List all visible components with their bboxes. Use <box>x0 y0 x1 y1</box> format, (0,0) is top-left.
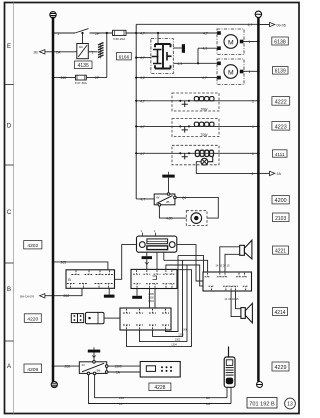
svg-text:4220: 4220 <box>27 317 38 323</box>
svg-text:5M: 5M <box>97 369 102 373</box>
svg-text:M: M <box>228 39 234 46</box>
wire plug to lower connector <box>104 317 120 319</box>
right label box 4223 <box>272 122 290 131</box>
blower motor M2 <box>224 65 238 79</box>
blower motor M1 dash box <box>217 29 244 55</box>
ballast resistor hatched <box>98 43 104 58</box>
wire row2 bus to fuse F47 <box>53 77 76 79</box>
harness bundle wire 2 <box>140 265 188 341</box>
svg-text:150: 150 <box>119 396 124 400</box>
svg-text:1306: 1306 <box>182 329 188 332</box>
connector B pins bottom <box>67 284 75 288</box>
phone wires <box>227 387 231 403</box>
svg-text:2P: 2P <box>95 32 100 36</box>
flap unit top pin wire <box>157 33 159 44</box>
svg-text:14 31 34 15: 14 31 34 15 <box>224 297 239 301</box>
wire bus to arrow 2A <box>258 172 269 174</box>
svg-text:4202: 4202 <box>27 243 38 249</box>
right label box 6138 <box>272 37 289 45</box>
svg-text:1304: 1304 <box>148 300 154 303</box>
svg-text:F30 20A: F30 20A <box>113 37 126 41</box>
component label box 4202 <box>24 241 42 250</box>
svg-text:14 33 34 15: 14 33 34 15 <box>215 263 230 267</box>
right supply bus <box>257 18 260 382</box>
svg-text:4,7: 4,7 <box>203 32 208 36</box>
harness connector lower <box>120 308 171 330</box>
wire relay to display 1A <box>108 371 140 373</box>
svg-text:4,2: 4,2 <box>140 76 145 80</box>
junction dots main rows <box>135 23 260 175</box>
svg-text:M5: M5 <box>206 402 210 406</box>
svg-text:6138: 6138 <box>274 39 286 45</box>
resistor coil R2 <box>194 122 214 126</box>
svg-text:2103: 2103 <box>275 216 286 222</box>
svg-text:2V: 2V <box>82 363 86 367</box>
wire thermal fuse to bus <box>196 162 258 174</box>
vertical link motor1 feed <box>197 48 199 63</box>
switch S1 blade <box>75 29 89 33</box>
flap control contact plate <box>155 44 171 69</box>
svg-text:2A: 2A <box>56 50 61 54</box>
display dots <box>161 366 172 372</box>
wire flap unit to motor row <box>173 62 219 64</box>
svg-text:4223: 4223 <box>275 124 287 130</box>
battery terminal bottom left <box>51 381 57 387</box>
wire switch to fuse F30 <box>90 32 113 34</box>
zone tick E/D <box>5 84 14 86</box>
speaker feed wire A <box>178 256 204 272</box>
wire 265 to connector B <box>53 262 108 270</box>
svg-text:265: 265 <box>61 260 67 264</box>
ground G5 above relay <box>88 347 100 362</box>
svg-text:D: D <box>7 124 12 130</box>
link coil to thermal fuse <box>208 157 213 162</box>
heater unit boundary top edge <box>136 23 258 25</box>
svg-text:265: 265 <box>65 365 71 369</box>
svg-text:09-05: 09-05 <box>277 23 286 27</box>
pump relay circuit wires <box>159 197 218 218</box>
upper connector inner links <box>153 276 157 280</box>
right label box 2193 <box>273 213 290 222</box>
right label box 4200 <box>272 196 289 205</box>
harness bundle wire 1 <box>127 270 192 347</box>
M1 pins <box>217 31 243 50</box>
fuse F47 30A <box>76 75 87 80</box>
heater unit boundary left edge <box>135 24 137 199</box>
svg-text:1: 1 <box>249 70 251 74</box>
wire M1 to bus <box>243 41 258 43</box>
speaker connector pins <box>205 273 249 290</box>
svg-text:2B: 2B <box>166 200 170 204</box>
radio aerial link <box>163 252 165 260</box>
svg-text:4111: 4111 <box>275 152 285 158</box>
svg-text:4229: 4229 <box>275 365 287 371</box>
svg-text:Q4: Q4 <box>182 196 186 200</box>
wire unit edge to pump relay <box>136 198 154 200</box>
svg-text:1: 1 <box>249 40 251 44</box>
capacitor stub wire <box>173 47 182 49</box>
svg-text:4200: 4200 <box>275 198 287 204</box>
wire fuse to unit edge <box>126 32 219 34</box>
phone keypad stripes <box>226 368 234 376</box>
junction dots top <box>52 32 159 79</box>
svg-text:2B: 2B <box>34 51 39 55</box>
left supply bus <box>52 18 55 382</box>
svg-text:202: 202 <box>64 294 70 298</box>
wire fuse F47 to node2P <box>86 77 107 79</box>
svg-text:4,3: 4,3 <box>178 62 183 66</box>
svg-text:A: A <box>7 364 11 370</box>
svg-text:2A: 2A <box>277 172 282 176</box>
relay 4135 coil feed <box>82 33 84 44</box>
left margin divider <box>13 3 15 414</box>
svg-text:4221: 4221 <box>275 249 286 255</box>
svg-text:4214: 4214 <box>274 310 285 316</box>
wire 202 to connector B <box>53 288 82 295</box>
thermal fuse symbol <box>201 158 208 165</box>
battery terminal top right <box>255 11 261 17</box>
arrow out left E <box>39 50 45 54</box>
wire link to motor1 pin2 <box>198 47 219 49</box>
svg-text:70W: 70W <box>201 108 209 112</box>
radio pin link to harness <box>156 252 158 269</box>
heater resistor row R2 <box>136 119 258 137</box>
right label box 4229 <box>272 362 289 371</box>
wire bus to relay 4135 <box>45 51 77 53</box>
speaker SP2 wires <box>231 291 241 317</box>
right label box 4222 <box>272 97 290 106</box>
zone tick B/A <box>5 340 14 342</box>
svg-text:13: 13 <box>287 402 293 408</box>
ground G1 above pump relay <box>162 172 174 194</box>
svg-text:4,7: 4,7 <box>248 23 253 27</box>
component label box 4209 <box>24 364 42 373</box>
ground G3 connector B <box>104 288 115 297</box>
car radio unit <box>137 236 177 252</box>
arrow out right 2A <box>270 171 275 175</box>
svg-text:4,7: 4,7 <box>140 152 145 156</box>
svg-text:B5: B5 <box>206 396 210 400</box>
lower connector pins <box>123 309 169 329</box>
harness connector upper <box>131 269 177 288</box>
svg-text:4,7: 4,7 <box>140 32 145 36</box>
inline diagnostic plug <box>71 312 104 323</box>
relay 4135 body <box>77 44 89 59</box>
svg-text:C: C <box>7 210 12 216</box>
thermal cutout R3 <box>179 152 181 154</box>
phone relay body <box>79 361 108 375</box>
svg-text:4222: 4222 <box>275 100 287 106</box>
svg-text:2P: 2P <box>95 76 100 80</box>
svg-text:2: 2 <box>154 229 156 233</box>
svg-text:4,3: 4,3 <box>203 47 208 51</box>
upper connector pins <box>133 270 174 288</box>
svg-text:B: B <box>68 277 71 282</box>
component label box 4220 <box>24 314 41 323</box>
speaker SP1 wires <box>220 247 240 272</box>
title block 701 192 B <box>247 398 277 409</box>
zone tick D/C <box>5 164 14 166</box>
svg-text:M: M <box>228 69 234 76</box>
relay output wires down <box>89 375 232 404</box>
connector B body <box>66 270 115 289</box>
arrow out left BH-CH <box>40 294 53 298</box>
water pump dash box <box>186 211 207 226</box>
suppression capacitor C1 <box>182 44 185 53</box>
speaker feed wire C <box>187 265 203 286</box>
svg-text:70W: 70W <box>201 133 209 137</box>
svg-text:AV: AV <box>156 196 160 200</box>
heater resistor row R1 <box>136 93 258 111</box>
speaker connector body <box>203 272 252 291</box>
bottom relay feed wire <box>53 365 79 367</box>
flap control unit dash box <box>151 39 173 74</box>
svg-text:1: 1 <box>92 50 94 54</box>
svg-text:4,0B: 4,0B <box>166 217 173 221</box>
radio top pin stubs <box>143 233 156 237</box>
phone display unit <box>140 362 180 378</box>
svg-text:4,7: 4,7 <box>141 197 146 201</box>
link labels <box>148 293 154 303</box>
blower motor M1 <box>224 35 238 49</box>
wire unit edge to flap unit <box>136 57 151 59</box>
svg-text:B: B <box>7 287 11 293</box>
svg-text:701 192 B: 701 192 B <box>249 402 275 408</box>
svg-text:1300: 1300 <box>115 365 122 369</box>
thermal cutout R2 <box>179 125 181 127</box>
svg-text:6: 6 <box>252 172 254 176</box>
svg-text:4,7: 4,7 <box>140 125 145 129</box>
battery terminal bottom right <box>257 382 263 388</box>
bundle labels <box>171 329 188 347</box>
harness bundle wire 3 <box>153 260 183 336</box>
M2 pins <box>217 62 243 80</box>
right label box 4214 <box>273 308 288 316</box>
harness bundle wire 4 <box>166 256 179 332</box>
right label box 4221 <box>273 246 289 255</box>
svg-text:4135: 4135 <box>78 63 89 69</box>
connector B pins top <box>67 271 114 288</box>
blower motor M2 dash box <box>217 59 244 85</box>
svg-text:1: 1 <box>252 152 254 156</box>
resistor coil R1 <box>194 97 214 101</box>
right label box 6199 <box>273 67 289 75</box>
svg-text:4209: 4209 <box>27 367 38 373</box>
phone antenna <box>228 347 230 358</box>
component label box 4228 <box>149 383 171 391</box>
wire radio right feed <box>177 245 203 281</box>
vertical link node2P <box>106 33 108 78</box>
svg-text:265: 265 <box>61 76 67 80</box>
svg-text:1303: 1303 <box>175 339 181 342</box>
heater coil R3 <box>195 150 213 156</box>
svg-text:1: 1 <box>252 99 254 103</box>
svg-text:6139: 6139 <box>275 69 286 75</box>
speaker SP2 <box>241 303 253 323</box>
component label box 4135 <box>75 61 93 69</box>
junction dots left bus mid <box>52 261 54 297</box>
links upper to lower connector <box>150 289 156 309</box>
phone key pad dark <box>226 378 233 385</box>
mobile phone body <box>224 357 235 387</box>
svg-text:4,7: 4,7 <box>140 99 145 103</box>
svg-text:1300: 1300 <box>178 334 184 337</box>
svg-text:6166: 6166 <box>119 55 130 61</box>
wire row1 bus to switch <box>39 29 219 80</box>
wire unit edge to motor2 pin2 <box>136 77 219 79</box>
wire radio left to connector <box>115 245 137 280</box>
svg-text:4,7: 4,7 <box>140 56 145 60</box>
battery terminal top left <box>50 12 56 18</box>
wire top edge to arrow 09 05 <box>258 24 269 26</box>
svg-text:BH-CH 676: BH-CH 676 <box>20 294 34 298</box>
right label box 4111 <box>273 150 288 158</box>
zone tick C/B <box>5 262 14 264</box>
svg-text:M2: M2 <box>79 45 83 49</box>
svg-text:4,7: 4,7 <box>202 76 207 80</box>
svg-text:2: 2 <box>58 32 60 36</box>
ground G2 radio <box>142 252 152 269</box>
speaker SP1 <box>240 240 252 259</box>
pump relay body <box>154 193 176 206</box>
wire relay to resistor <box>88 51 97 53</box>
switch illumination row R3 <box>136 145 275 175</box>
speaker feed wire B <box>183 260 208 272</box>
ground G4 harness <box>132 289 142 299</box>
sheet number circle 13 <box>285 398 296 409</box>
svg-text:15: 15 <box>119 402 123 406</box>
svg-text:E: E <box>7 44 11 50</box>
wire relay to display 1300 <box>108 365 140 367</box>
svg-text:4228: 4228 <box>154 385 165 391</box>
component label box 6166 <box>117 53 132 61</box>
water pump P1 <box>191 213 202 224</box>
arrow out right 09 05 <box>270 22 275 26</box>
thermal cutout R1 <box>179 100 181 102</box>
wire M2 to bus <box>243 70 258 72</box>
svg-text:1304: 1304 <box>171 344 177 347</box>
svg-text:F47 30A: F47 30A <box>75 81 88 85</box>
svg-text:1: 1 <box>252 125 254 129</box>
svg-text:1: 1 <box>141 229 143 233</box>
fuse F30 20A <box>113 30 127 35</box>
